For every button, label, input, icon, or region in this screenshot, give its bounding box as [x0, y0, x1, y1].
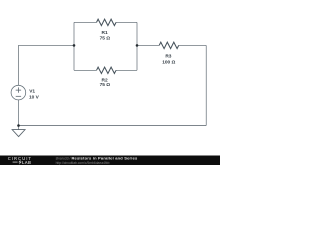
- wire: ground stub: [18, 126, 20, 130]
- svg-text:10 V: 10 V: [29, 95, 40, 101]
- wire: bottom rail left lead: [74, 69, 97, 71]
- svg-text:100 Ω: 100 Ω: [162, 59, 175, 65]
- svg-text:http://circuitlab.com/c/5mb6da: http://circuitlab.com/c/5mb6daea4fbb: [56, 161, 110, 165]
- svg-text:75 Ω: 75 Ω: [100, 82, 111, 88]
- svg-text:stvaru33 / Resistors in Parall: stvaru33 / Resistors in Parallel and Ser…: [56, 156, 138, 161]
- wire: bottom rail right lead: [116, 69, 137, 71]
- resistor R2: [97, 67, 117, 73]
- wire: right side of parallel box: [136, 22, 138, 70]
- svg-text:R3: R3: [165, 54, 171, 60]
- node: junction right of parallel box: [136, 44, 139, 47]
- wire: top rail left lead: [74, 21, 97, 23]
- wire: V1 bottom to ground node: [18, 100, 20, 126]
- wire: right vertical drop: [205, 45, 207, 125]
- svg-text:V1: V1: [29, 89, 35, 95]
- wire: bottom return rail: [19, 125, 207, 127]
- node: ground junction: [17, 124, 20, 127]
- V1 minus sign: [16, 95, 21, 97]
- watermark bar: [0, 156, 220, 166]
- svg-text:75 Ω: 75 Ω: [100, 35, 111, 41]
- wire: R3 to right corner: [179, 44, 207, 46]
- ground: [12, 130, 25, 137]
- svg-text:LAB: LAB: [22, 160, 31, 165]
- voltage source V1: [11, 85, 26, 100]
- node: junction left of parallel box: [73, 44, 76, 47]
- wire: feed to R3: [137, 44, 159, 46]
- resistor R3: [159, 42, 179, 48]
- wire: top rail right lead: [116, 21, 137, 23]
- svg-text:R1: R1: [102, 30, 108, 36]
- V1 plus sign: [16, 87, 21, 92]
- wire: left side of parallel box: [73, 22, 75, 70]
- resistor R1: [97, 19, 117, 25]
- wire: V1 top to left corner and feed to parallel box: [19, 45, 75, 85]
